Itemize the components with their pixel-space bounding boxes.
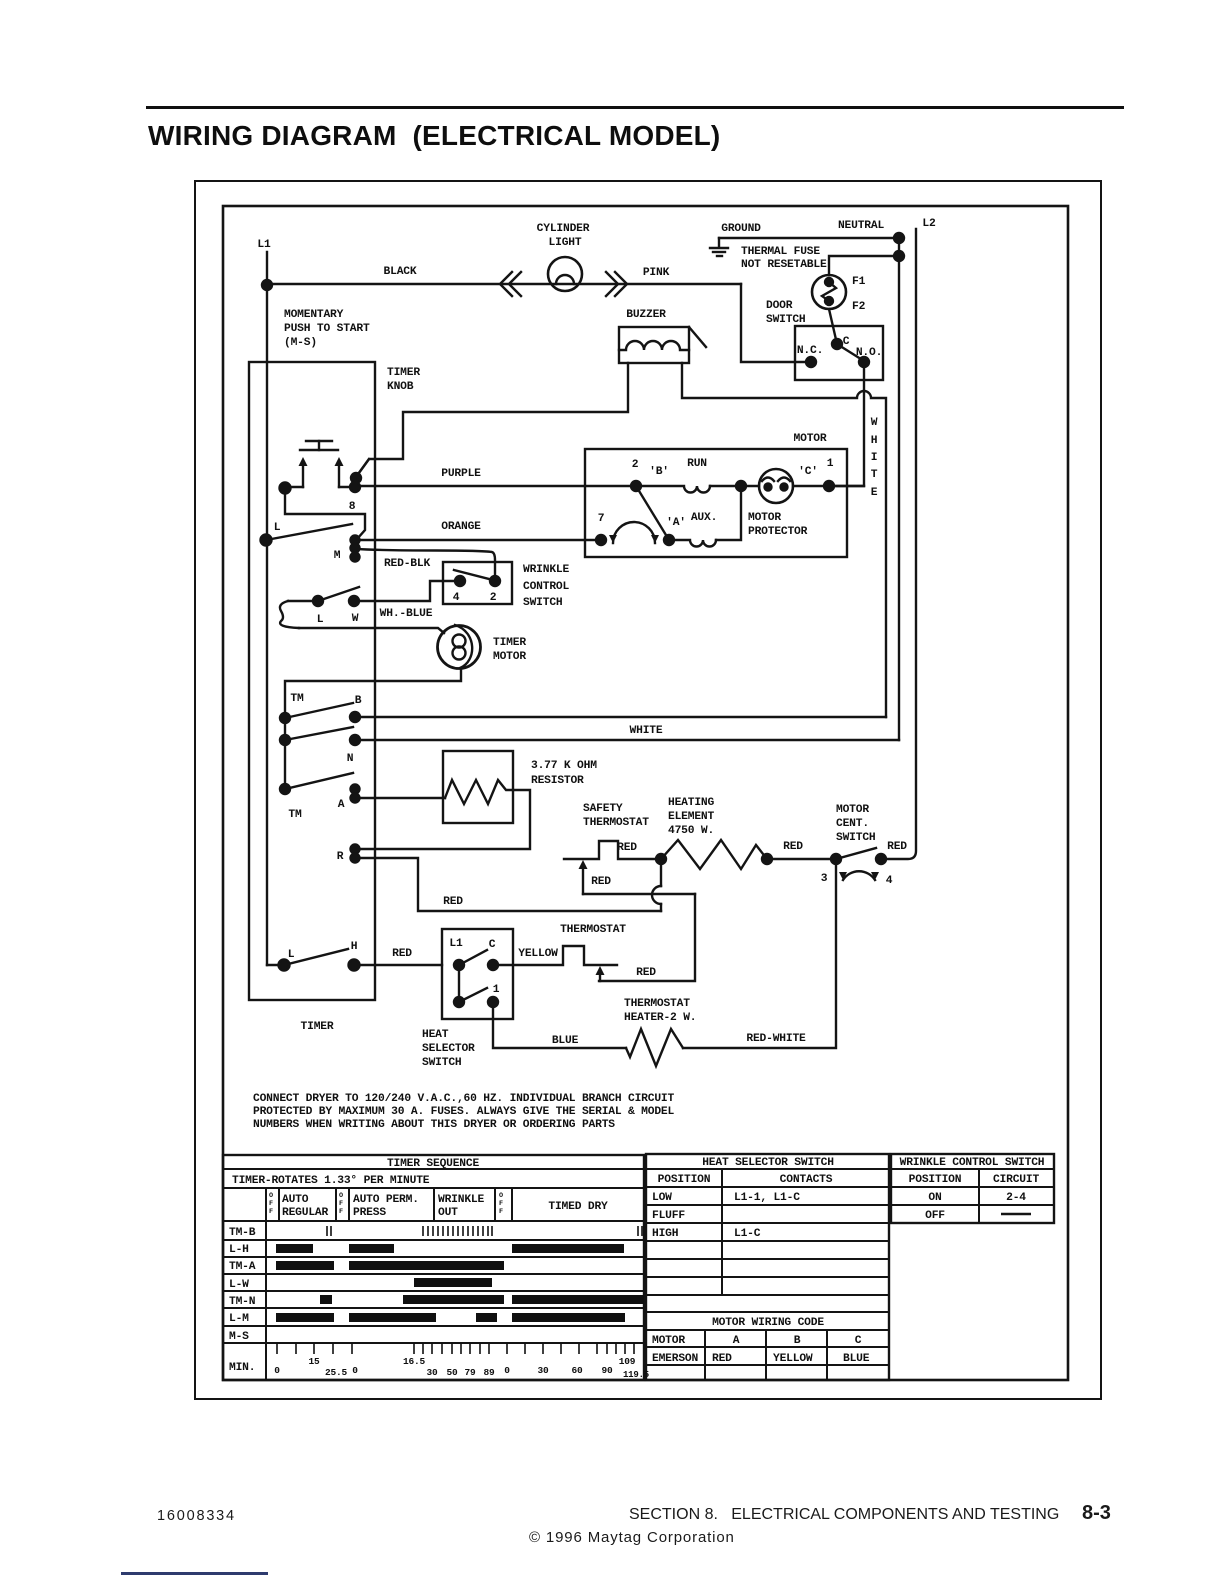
svg-text:B: B: [794, 1335, 801, 1347]
svg-text:N: N: [347, 753, 354, 765]
svg-text:TIMED DRY: TIMED DRY: [548, 1201, 608, 1213]
svg-text:HEAT: HEAT: [422, 1029, 449, 1041]
svg-text:MIN.: MIN.: [229, 1362, 255, 1374]
svg-text:PROTECTED BY MAXIMUM 30 A. FUS: PROTECTED BY MAXIMUM 30 A. FUSES. ALWAYS…: [253, 1106, 674, 1118]
svg-text:'B': 'B': [649, 466, 669, 478]
svg-text:16.5: 16.5: [403, 1356, 426, 1367]
wire ORANGE: [355, 539, 601, 541]
motor cent switch contact 3: [831, 854, 841, 864]
node neutral junctions: [894, 233, 904, 261]
svg-text:THERMAL FUSE: THERMAL FUSE: [741, 246, 820, 258]
inner border frame: [223, 206, 1068, 1380]
svg-text:SWITCH: SWITCH: [766, 314, 806, 326]
svg-text:PINK: PINK: [643, 267, 670, 279]
svg-text:POSITION: POSITION: [658, 1174, 711, 1186]
wire aux-to-junction: [716, 486, 741, 540]
buzzer box: [619, 327, 689, 363]
wire H-to-selector RED: [354, 964, 442, 966]
svg-text:L: L: [288, 949, 295, 961]
svg-text:RESISTOR: RESISTOR: [531, 775, 584, 787]
push-to-start right arrow contact: [335, 457, 362, 492]
svg-text:4750 W.: 4750 W.: [668, 825, 714, 837]
svg-text:THERMOSTAT: THERMOSTAT: [624, 998, 690, 1010]
motor box: [585, 449, 847, 557]
svg-text:SWITCH: SWITCH: [523, 597, 563, 609]
svg-text:YELLOW: YELLOW: [518, 948, 558, 960]
svg-text:0: 0: [274, 1365, 280, 1376]
heat selector table grid: [646, 1154, 889, 1380]
svg-text:8: 8: [349, 501, 356, 513]
svg-text:MOMENTARY: MOMENTARY: [284, 309, 344, 321]
svg-text:TM-A: TM-A: [229, 1261, 256, 1273]
wrinkle off dash: [1001, 1213, 1031, 1215]
svg-text:L: L: [274, 522, 281, 534]
top rule: [146, 106, 1124, 109]
svg-text:I: I: [871, 452, 878, 464]
svg-text:15: 15: [308, 1356, 320, 1367]
heating element zigzag: [661, 840, 767, 869]
svg-text:A: A: [733, 1335, 740, 1347]
svg-text:OFF: OFF: [925, 1210, 945, 1222]
MIN scale ticks: [277, 1343, 634, 1354]
svg-text:RED-WHITE: RED-WHITE: [746, 1033, 806, 1045]
motor cent switch contact 4: [876, 854, 886, 864]
svg-text:F1: F1: [852, 276, 866, 288]
svg-text:B: B: [355, 695, 362, 707]
footer section title: [629, 1506, 1059, 1524]
svg-text:F: F: [499, 1208, 503, 1216]
svg-text:HEATING: HEATING: [668, 797, 714, 809]
timer box: [249, 362, 375, 1000]
svg-text:AUX.: AUX.: [691, 512, 717, 524]
svg-text:NEUTRAL: NEUTRAL: [838, 220, 884, 232]
motor contact 2: [631, 481, 641, 491]
timer blade TM-B: [285, 703, 353, 718]
svg-text:TIMER: TIMER: [301, 1021, 334, 1033]
wrinkle control switch box: [443, 562, 512, 604]
wire resistor-to-R: [357, 790, 530, 849]
svg-text:W: W: [871, 417, 878, 429]
wire RED-WHITE drop: [683, 859, 836, 1048]
connector chevrons left: [500, 272, 521, 296]
svg-text:25.5: 25.5: [325, 1367, 348, 1378]
svg-text:KNOB: KNOB: [387, 381, 414, 393]
timer TM contacts left: [280, 713, 290, 794]
svg-text:CIRCUIT: CIRCUIT: [993, 1174, 1039, 1186]
svg-text:'A': 'A': [666, 517, 686, 529]
wire RED-BLK: [355, 549, 495, 581]
node L1: [262, 252, 272, 965]
lamp cylinder light: [548, 257, 582, 291]
svg-text:F: F: [269, 1208, 273, 1216]
svg-text:TM-N: TM-N: [229, 1296, 256, 1308]
timer motor: [438, 625, 481, 669]
run winding: [636, 486, 710, 493]
svg-text:TIMER-ROTATES 1.33° PER MINUTE: TIMER-ROTATES 1.33° PER MINUTE: [232, 1175, 430, 1187]
wire 4-to-W: [354, 581, 460, 601]
outer border frame: [195, 181, 1101, 1399]
svg-text:RED: RED: [783, 841, 803, 853]
thermostat arrow: [596, 966, 605, 981]
svg-text:HEATER-2 W.: HEATER-2 W.: [624, 1012, 696, 1024]
wire WHITE B: [355, 716, 886, 718]
svg-text:WRINKLE: WRINKLE: [438, 1194, 484, 1206]
resistor zigzag: [445, 780, 513, 804]
svg-text:MOTOR: MOTOR: [748, 512, 781, 524]
wire 8-step to M: [285, 488, 365, 539]
svg-text:3: 3: [821, 873, 828, 885]
cent switch rotation arc: [839, 871, 879, 880]
svg-text:CONTACTS: CONTACTS: [780, 1174, 833, 1186]
timer contact M: [351, 536, 360, 562]
timer blade TM-N: [285, 727, 353, 740]
svg-text:90: 90: [601, 1365, 613, 1376]
push-to-start button symbol: [300, 441, 338, 450]
timer contact L upper: [261, 535, 272, 546]
svg-text:C: C: [855, 1335, 862, 1347]
svg-text:MOTOR: MOTOR: [836, 804, 869, 816]
svg-text:N.O.: N.O.: [856, 347, 882, 359]
svg-text:WH.-BLUE: WH.-BLUE: [380, 608, 433, 620]
svg-text:RED: RED: [712, 1353, 732, 1365]
svg-text:RED-BLK: RED-BLK: [384, 558, 430, 570]
node heating element left: [656, 854, 666, 864]
motor protector: [759, 469, 793, 503]
svg-text:A: A: [338, 799, 345, 811]
timer blade TM-A: [285, 773, 353, 789]
svg-text:(M-S): (M-S): [284, 337, 317, 349]
wire contact8-to-buzzer: [356, 459, 369, 477]
svg-text:F: F: [499, 1200, 503, 1208]
svg-text:RED: RED: [887, 841, 907, 853]
svg-text:LOW: LOW: [652, 1192, 672, 1204]
svg-text:PUSH TO START: PUSH TO START: [284, 323, 370, 335]
door switch contacts: [806, 339, 869, 367]
svg-text:L1-1, L1-C: L1-1, L1-C: [734, 1192, 800, 1204]
svg-text:F: F: [339, 1208, 343, 1216]
svg-text:AUTO PERM.: AUTO PERM.: [353, 1194, 419, 1206]
svg-text:E: E: [871, 487, 878, 499]
wire PINK: [741, 284, 806, 362]
svg-text:C: C: [843, 336, 850, 348]
svg-text:YELLOW: YELLOW: [773, 1353, 813, 1365]
door switch box: [795, 326, 883, 380]
wire run-to-protector: [710, 485, 759, 487]
svg-text:DOOR: DOOR: [766, 300, 793, 312]
timer sequence bars: [276, 1244, 644, 1322]
svg-text:'C': 'C': [798, 466, 818, 478]
svg-text:T: T: [871, 469, 878, 481]
motor contact 7: [596, 535, 606, 545]
timer sequence table grid: [223, 1155, 644, 1380]
svg-text:CONNECT DRYER TO 120/240 V.A.C: CONNECT DRYER TO 120/240 V.A.C.,60 HZ. I…: [253, 1093, 674, 1105]
svg-text:7: 7: [598, 513, 605, 525]
svg-text:30: 30: [537, 1365, 549, 1376]
svg-text:GROUND: GROUND: [721, 223, 761, 235]
svg-text:PRESS: PRESS: [353, 1207, 386, 1219]
svg-text:4: 4: [453, 592, 460, 604]
svg-text:WHITE: WHITE: [630, 725, 663, 737]
safety thermostat arrow: [579, 860, 588, 894]
motor switch blade 2-A: [636, 486, 669, 540]
svg-text:SWITCH: SWITCH: [836, 832, 876, 844]
svg-text:MOTOR WIRING CODE: MOTOR WIRING CODE: [712, 1317, 824, 1329]
svg-text:THERMOSTAT: THERMOSTAT: [560, 924, 626, 936]
wire buzzer left leg: [356, 363, 628, 477]
wire YELLOW thermostat: [493, 946, 617, 965]
svg-text:4: 4: [886, 875, 893, 887]
timer blade L-M: [266, 524, 352, 540]
svg-text:O: O: [499, 1192, 503, 1200]
timer contact W: [349, 596, 359, 606]
heat selector switch box: [442, 929, 513, 1019]
svg-text:1: 1: [493, 984, 500, 996]
motor rotation arc: [609, 522, 659, 543]
svg-text:0: 0: [352, 1365, 358, 1376]
svg-text:ON: ON: [928, 1192, 942, 1204]
timer contact L lower: [313, 596, 323, 606]
aux winding: [669, 540, 716, 547]
wire BLACK top: [267, 283, 741, 285]
svg-text:L-H: L-H: [229, 1244, 249, 1256]
svg-text:ORANGE: ORANGE: [441, 521, 481, 533]
wire element-to-3: [767, 858, 836, 860]
svg-text:NUMBERS WHEN WRITING ABOUT THI: NUMBERS WHEN WRITING ABOUT THIS DRYER OR…: [253, 1119, 615, 1131]
wire NO-to-motor1: [829, 362, 864, 486]
wire PURPLE: [355, 485, 636, 487]
svg-text:L1-C: L1-C: [734, 1228, 761, 1240]
svg-text:L-W: L-W: [229, 1279, 249, 1291]
cent switch blade: [836, 848, 876, 859]
wire A-to-resistor: [355, 797, 445, 799]
svg-text:W: W: [352, 613, 359, 625]
svg-text:BLACK: BLACK: [384, 266, 417, 278]
safety thermostat symbol: [564, 841, 661, 859]
timer contact A: [351, 785, 360, 803]
svg-text:REGULAR: REGULAR: [282, 1207, 328, 1219]
wire R-RED: [355, 858, 661, 911]
svg-text:F2: F2: [852, 301, 866, 313]
footer page number: [1082, 1502, 1111, 1525]
svg-text:MOTOR: MOTOR: [794, 433, 827, 445]
svg-text:3.77 K OHM: 3.77 K OHM: [531, 760, 597, 772]
svg-text:TM: TM: [288, 809, 302, 821]
svg-text:EMERSON: EMERSON: [652, 1353, 698, 1365]
svg-text:2-4: 2-4: [1006, 1192, 1026, 1204]
svg-text:RED: RED: [392, 948, 412, 960]
timer contact N: [350, 735, 360, 745]
timer contact H: [349, 960, 360, 971]
svg-text:H: H: [871, 435, 878, 447]
svg-text:RED: RED: [591, 876, 611, 888]
motor contact A: [664, 535, 674, 545]
svg-text:60: 60: [571, 1365, 583, 1376]
svg-text:TM: TM: [290, 693, 304, 705]
svg-text:N.C.: N.C.: [797, 345, 823, 357]
wire arrow-horizontal: [583, 893, 695, 895]
wire thermostat vertical: [599, 894, 695, 981]
wire protector-to-1: [793, 485, 864, 487]
svg-text:POSITION: POSITION: [909, 1174, 962, 1186]
svg-text:M-S: M-S: [229, 1331, 249, 1343]
svg-text:89: 89: [483, 1367, 495, 1378]
svg-text:TM-B: TM-B: [229, 1227, 256, 1239]
wire link-to-timer-motor: [299, 628, 444, 633]
svg-text:TIMER SEQUENCE: TIMER SEQUENCE: [387, 1158, 480, 1170]
svg-text:FLUFF: FLUFF: [652, 1210, 685, 1222]
svg-text:SAFETY: SAFETY: [583, 803, 623, 815]
svg-text:L2: L2: [922, 218, 936, 230]
timer blade L-W: [318, 587, 359, 601]
wrinkle control table grid: [891, 1154, 1054, 1223]
timer blade L-H: [284, 949, 348, 965]
wire BLUE: [493, 1002, 626, 1048]
wire neutral vertical: [898, 238, 900, 740]
svg-text:WRINKLE CONTROL SWITCH: WRINKLE CONTROL SWITCH: [900, 1157, 1045, 1169]
wrinkle switch contacts: [454, 570, 500, 586]
svg-text:30: 30: [426, 1367, 438, 1378]
push-to-start left arrow contact: [280, 457, 308, 494]
svg-text:OUT: OUT: [438, 1207, 458, 1219]
svg-text:RED: RED: [443, 896, 463, 908]
svg-text:C: C: [489, 939, 496, 951]
svg-text:R: R: [337, 851, 344, 863]
buzzer flapper: [689, 327, 706, 347]
wire timer-motor-to-TM: [285, 668, 461, 789]
svg-text:2: 2: [632, 459, 639, 471]
svg-text:CONTROL: CONTROL: [523, 581, 569, 593]
svg-text:WRINKLE: WRINKLE: [523, 564, 569, 576]
svg-text:F: F: [269, 1200, 273, 1208]
svg-text:ELEMENT: ELEMENT: [668, 811, 714, 823]
svg-text:BUZZER: BUZZER: [626, 309, 666, 321]
wire bus-to-L: [267, 964, 284, 966]
svg-text:LIGHT: LIGHT: [549, 237, 582, 249]
svg-text:SWITCH: SWITCH: [422, 1057, 462, 1069]
wire element-drop with hop: [652, 859, 661, 911]
svg-text:109: 109: [619, 1356, 636, 1367]
ground symbol: [710, 238, 728, 256]
svg-text:O: O: [339, 1192, 343, 1200]
svg-text:0: 0: [504, 1365, 510, 1376]
wire L-to-link: [288, 600, 318, 602]
svg-text:RUN: RUN: [687, 458, 707, 470]
buzzer coil: [619, 341, 689, 350]
svg-text:BLUE: BLUE: [843, 1353, 870, 1365]
svg-text:L1: L1: [257, 239, 271, 251]
svg-text:CENT.: CENT.: [836, 818, 869, 830]
timer contact R: [351, 845, 360, 863]
motor contact 1: [824, 481, 834, 491]
svg-text:1: 1: [827, 458, 834, 470]
svg-text:M: M: [334, 550, 341, 562]
svg-text:79: 79: [464, 1367, 476, 1378]
svg-text:L: L: [317, 614, 324, 626]
svg-text:119.5: 119.5: [623, 1370, 649, 1380]
timer contact B: [350, 712, 360, 722]
svg-text:AUTO: AUTO: [282, 1194, 309, 1206]
svg-text:PROTECTOR: PROTECTOR: [748, 526, 808, 538]
svg-text:MOTOR: MOTOR: [493, 651, 526, 663]
connector chevrons right: [606, 272, 627, 296]
svg-text:CYLINDER: CYLINDER: [537, 223, 590, 235]
svg-text:2: 2: [490, 592, 497, 604]
svg-text:PURPLE: PURPLE: [441, 468, 481, 480]
mechanical link curve: [280, 601, 299, 628]
TM-B tick marks: [327, 1226, 642, 1236]
footer part number: [157, 1508, 236, 1524]
resistor box: [443, 751, 513, 823]
wire N-neutral: [355, 739, 899, 741]
node heating element right: [762, 854, 772, 864]
thermostat heater zigzag: [626, 1029, 683, 1066]
svg-text:F: F: [339, 1200, 343, 1208]
svg-text:L1: L1: [449, 938, 463, 950]
page title: [148, 120, 720, 152]
svg-text:H: H: [351, 941, 358, 953]
svg-text:HIGH: HIGH: [652, 1228, 679, 1240]
svg-text:HEAT SELECTOR SWITCH: HEAT SELECTOR SWITCH: [702, 1157, 834, 1169]
svg-text:RED: RED: [617, 842, 637, 854]
wire L2: [881, 229, 916, 859]
svg-text:L-M: L-M: [229, 1313, 249, 1325]
footer blue mark: [121, 1572, 268, 1575]
node motor junction: [736, 481, 746, 491]
svg-text:O: O: [269, 1192, 273, 1200]
svg-text:NOT RESETABLE: NOT RESETABLE: [741, 259, 827, 271]
svg-text:TIMER: TIMER: [493, 637, 526, 649]
heat selector contacts: [454, 950, 498, 1007]
footer copyright: [529, 1529, 735, 1546]
timer contact L bottom: [279, 960, 290, 971]
svg-text:MOTOR: MOTOR: [652, 1335, 685, 1347]
wire buzzer right leg with hop: [682, 363, 886, 717]
svg-text:TIMER: TIMER: [387, 367, 420, 379]
svg-text:50: 50: [446, 1367, 458, 1378]
svg-text:THERMOSTAT: THERMOSTAT: [583, 817, 649, 829]
svg-text:BLUE: BLUE: [552, 1035, 579, 1047]
svg-text:RED: RED: [636, 967, 656, 979]
svg-text:SELECTOR: SELECTOR: [422, 1043, 475, 1055]
fuse F1-F2 thermal fuse: [812, 256, 899, 344]
wire ground-to-neutral: [719, 237, 899, 239]
